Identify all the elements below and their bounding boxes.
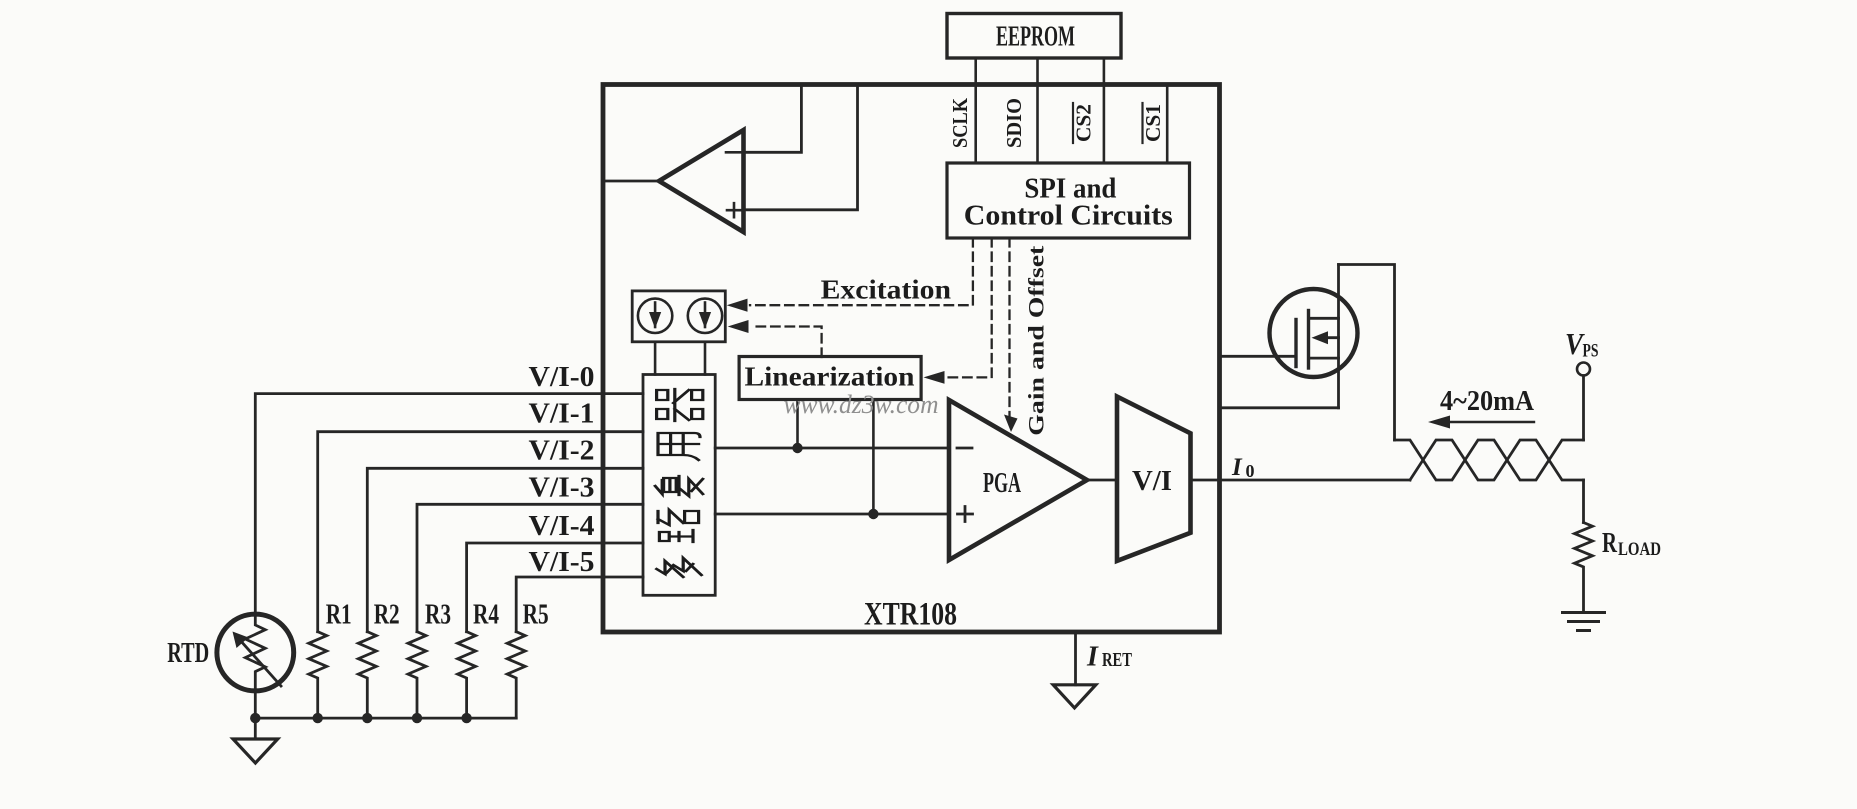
I0 output wire	[1191, 479, 1411, 482]
wire EEPROM pin2 to SDIO	[1036, 58, 1039, 163]
wire CS1 pin	[1166, 85, 1169, 164]
SPI and Control Circuits label	[964, 174, 1173, 232]
twisted pair wire bottom conductor	[1410, 440, 1584, 480]
V/I converter block	[1117, 397, 1191, 561]
svg-text:V/I-3: V/I-3	[529, 473, 595, 504]
svg-text:R: R	[1602, 527, 1618, 559]
wire IRET pin	[1074, 632, 1077, 685]
twisted pair wire top conductor	[1395, 440, 1584, 480]
multiplexer label 多路复用器 (rotated CJK strokes)	[655, 389, 703, 577]
svg-text:V/I-1: V/I-1	[529, 399, 595, 430]
svg-text:R3: R3	[425, 599, 451, 631]
svg-text:EEPROM: EEPROM	[996, 22, 1075, 53]
svg-text:Gain and Offset: Gain and Offset	[1024, 245, 1049, 436]
svg-text:Linearization: Linearization	[745, 362, 915, 392]
wire current source I2 to multiplexer	[704, 342, 707, 375]
resistor R4	[458, 632, 476, 718]
junction R2 bus	[362, 713, 372, 723]
resistor RLOAD	[1575, 523, 1593, 613]
svg-text:4~20mA: 4~20mA	[1440, 386, 1535, 417]
ground (RTD return)	[233, 739, 278, 763]
junction node on inverting wire	[792, 443, 802, 453]
wire op-amp output to left edge	[603, 180, 659, 183]
PGA amplifier	[949, 400, 1087, 560]
CJK char fu (复)	[655, 476, 703, 496]
wire multiplexer to PGA inverting input	[715, 447, 949, 450]
svg-text:I: I	[1086, 641, 1099, 672]
junction RTD bus	[250, 713, 260, 723]
common bus wire	[255, 717, 516, 720]
MOSFET Q1	[1270, 265, 1358, 408]
Linearization box	[739, 357, 921, 400]
junction R1 bus	[313, 713, 323, 723]
svg-text:V/I-2: V/I-2	[529, 436, 595, 467]
svg-text:R5: R5	[523, 599, 549, 631]
svg-text:R2: R2	[374, 599, 400, 631]
resistor R1	[309, 632, 327, 718]
CJK char lu (路)	[658, 510, 699, 542]
wire V/I-1 to R1	[318, 432, 643, 632]
svg-text:PGA: PGA	[983, 468, 1021, 499]
svg-text:I: I	[1231, 454, 1243, 481]
junction R4 bus	[461, 713, 471, 723]
svg-text:CS2: CS2	[1072, 104, 1096, 142]
wire op-amp inverting input feedback	[744, 85, 802, 153]
svg-text:V/I-0: V/I-0	[529, 362, 595, 393]
IRET label	[1086, 641, 1132, 672]
wire V/I-0 to RTD	[255, 394, 643, 615]
junction R3 bus	[412, 713, 422, 723]
wire MOSFET drain to loop top	[1339, 265, 1395, 441]
junction node on non-inverting wire	[868, 509, 878, 519]
svg-text:www.dz3w.com: www.dz3w.com	[784, 390, 939, 419]
VPS label	[1565, 326, 1599, 362]
wire bus to ground	[254, 718, 257, 739]
CJK char duo (多)	[657, 558, 702, 577]
XTR108 main box U1	[603, 85, 1220, 633]
EEPROM box	[947, 14, 1121, 59]
wire loop to RLOAD	[1582, 480, 1585, 523]
pin label CS1 (active low)	[1141, 103, 1165, 143]
current source box	[632, 291, 725, 342]
SPI and Control Circuits box	[947, 163, 1190, 238]
RTD sensor	[217, 614, 294, 691]
multiplexer box	[643, 375, 715, 596]
svg-text:LOAD: LOAD	[1618, 539, 1661, 560]
dashed wire Excitation control from SPI to current sources	[727, 238, 973, 312]
wire gate from XTR108 to MOSFET Q1	[1220, 355, 1297, 358]
svg-text:SCLK: SCLK	[948, 97, 972, 148]
wire Linearization to non-inverting node	[872, 400, 875, 515]
svg-text:V/I-4: V/I-4	[529, 511, 595, 542]
wire EEPROM pin1 to SCLK	[974, 58, 977, 163]
wire PGA output to V/I	[1087, 479, 1117, 482]
dashed wire Gain and Offset control from SPI to PGA	[1004, 238, 1018, 432]
svg-text:R4: R4	[473, 599, 499, 631]
dashed wire Linearization to current sources	[728, 320, 822, 357]
IRET ground arrow	[1053, 685, 1096, 708]
VPS terminal	[1577, 363, 1590, 376]
resistor R2	[358, 632, 376, 718]
I0 label	[1231, 454, 1255, 481]
wire Linearization to inverting node	[796, 400, 799, 449]
wire MOSFET source return to XTR108	[1220, 406, 1339, 409]
pin label CS2 (active low)	[1072, 103, 1096, 143]
CJK char qi (器)	[657, 389, 703, 421]
wire V/I-4 to R4	[467, 543, 643, 632]
CJK char yong (用)	[658, 433, 700, 460]
svg-text:V/I-5: V/I-5	[529, 547, 595, 578]
wire current source I1 to multiplexer	[654, 342, 657, 375]
wire RTD to common bus	[254, 691, 257, 718]
op-amp U2 buffer	[659, 130, 744, 232]
wire VPS to loop	[1582, 376, 1585, 441]
svg-text:RTD: RTD	[167, 637, 209, 669]
RLOAD label	[1602, 527, 1661, 560]
svg-text:Control Circuits: Control Circuits	[964, 201, 1173, 232]
svg-text:0: 0	[1246, 461, 1255, 481]
svg-text:Excitation: Excitation	[821, 275, 952, 305]
svg-text:V/I: V/I	[1132, 466, 1172, 497]
svg-text:SDIO: SDIO	[1002, 98, 1026, 148]
earth ground (RLOAD)	[1563, 613, 1605, 631]
wire V/I-5 to R5	[516, 577, 643, 632]
current direction arrow	[1428, 416, 1534, 429]
svg-text:R1: R1	[326, 599, 352, 631]
wire multiplexer to PGA non-inverting input	[715, 513, 949, 516]
current source I1	[638, 299, 672, 333]
wire V/I-3 to R3	[417, 504, 643, 631]
svg-text:CS1: CS1	[1141, 104, 1165, 142]
current source I2	[688, 299, 722, 333]
svg-text:XTR108: XTR108	[864, 597, 957, 633]
resistor R3	[408, 632, 426, 718]
resistor R5	[507, 632, 525, 718]
svg-text:RET: RET	[1102, 649, 1132, 671]
wire V/I-2 to R2	[367, 468, 643, 631]
wire EEPROM pin3 to CS2	[1103, 58, 1106, 163]
svg-text:PS: PS	[1583, 341, 1599, 362]
dashed wire SPI to Linearization	[924, 238, 992, 384]
wire op-amp non-inverting input	[744, 85, 858, 210]
